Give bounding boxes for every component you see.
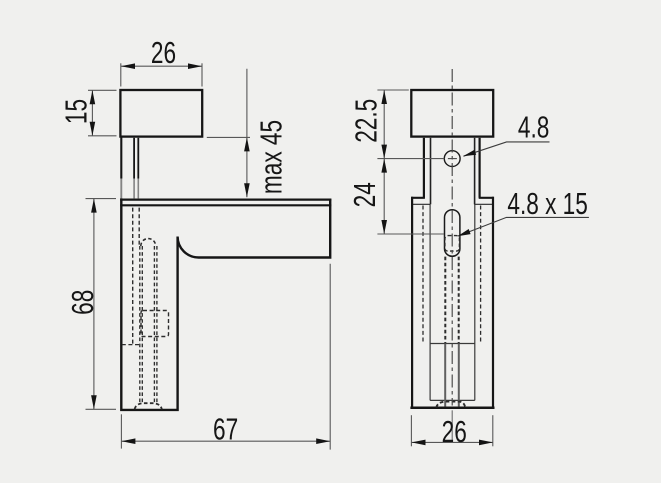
svg-text:26: 26 bbox=[151, 35, 176, 70]
svg-text:68: 68 bbox=[64, 290, 99, 315]
svg-text:4.8 x 15: 4.8 x 15 bbox=[507, 186, 587, 221]
svg-text:67: 67 bbox=[213, 411, 238, 446]
svg-text:max 45: max 45 bbox=[253, 120, 288, 194]
svg-text:26: 26 bbox=[442, 413, 467, 448]
svg-text:24: 24 bbox=[347, 182, 382, 207]
svg-text:15: 15 bbox=[58, 99, 93, 124]
svg-text:4.8: 4.8 bbox=[518, 109, 549, 144]
svg-text:22.5: 22.5 bbox=[348, 99, 383, 143]
